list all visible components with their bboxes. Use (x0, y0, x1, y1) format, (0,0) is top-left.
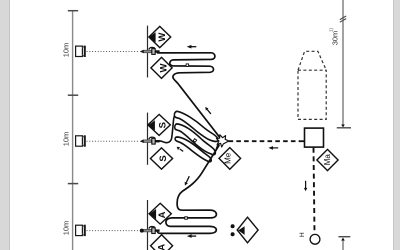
diamond S1 (148, 114, 170, 135)
small square marker on S loop 2 (193, 139, 196, 142)
svg-text:Me: Me (224, 152, 233, 164)
S exit strand to star (212, 143, 219, 156)
dashed line star to square (229, 140, 300, 142)
left dimension top bar (68, 10, 78, 12)
S loop 3 (175, 137, 211, 162)
square box (table) (305, 128, 324, 147)
small square marker on W strand 3 (186, 64, 189, 67)
boundary line segment W row (147, 26, 149, 78)
svg-text:S: S (158, 155, 169, 161)
solid stub into square (299, 140, 305, 142)
arrow on dashed line (pointing left) (268, 146, 278, 150)
svg-text:A: A (157, 244, 168, 250)
W serpentine track (158, 53, 220, 137)
svg-text:10m: 10m (62, 132, 71, 147)
direction arrow on diagonal to star (pointing up) (205, 107, 211, 114)
S loop 2 (175, 124, 216, 155)
dotted signal line 2 (87, 140, 140, 142)
dotted signal line 3 (87, 230, 140, 232)
direction arrow below A strand 4 (187, 234, 196, 238)
loudspeaker 2 (76, 135, 86, 146)
diamond A1 (149, 203, 171, 224)
diamond W2 (151, 57, 172, 78)
victim triangle at S1 (148, 120, 155, 130)
svg-text:W: W (157, 33, 168, 42)
right dimension line (30m) upper part (342, 0, 344, 126)
break symbol (340, 16, 346, 22)
marker device row 3 (140, 227, 160, 234)
svg-text:H: H (299, 232, 306, 237)
direction arrow on A diagonal (pointing down-left) (185, 176, 190, 185)
dashed vehicle outline (298, 51, 326, 119)
left gray page edge (0, 0, 10, 250)
loudspeaker 1 (76, 46, 86, 57)
handler circle (310, 234, 320, 244)
direction arrow above W strand 1 (187, 45, 197, 49)
legend dots (231, 224, 235, 228)
direction arrow on S serpentine (pointing upper-left) (177, 147, 184, 152)
right gray page edge (394, 0, 400, 250)
S loop 1 (174, 111, 218, 141)
marker device row 2 (140, 137, 160, 144)
marker device row 1 (140, 47, 160, 54)
diamond S2 (150, 148, 172, 169)
svg-text:1): 1) (329, 28, 334, 33)
bar under arrow (337, 127, 351, 129)
svg-text:10m: 10m (62, 221, 71, 236)
victim triangle at A1 (149, 209, 156, 219)
left dimension tick 1 (68, 94, 78, 96)
diamond A2 (cut by bottom edge) (151, 235, 173, 250)
diamond Me (219, 148, 241, 170)
victim triangle at W1 (149, 32, 156, 42)
svg-text:Ma: Ma (323, 154, 332, 166)
svg-text:S: S (157, 122, 168, 128)
diamond W1 (149, 26, 171, 47)
dotted signal line 1 (87, 51, 140, 53)
dashed line square down to handler (314, 148, 315, 234)
svg-text:10m: 10m (62, 43, 71, 58)
small square marker on A strand 2 (185, 217, 188, 220)
arrow up under lower bar (341, 238, 345, 241)
legend diamond (dog symbol) (237, 217, 258, 243)
boundary line segment A row (147, 200, 149, 250)
boundary line segment S row (147, 113, 149, 165)
central junction star (216, 135, 228, 147)
svg-text:A: A (157, 211, 168, 218)
right dimension line lower stub (342, 241, 344, 250)
arrow down at end of upper part (341, 125, 345, 128)
diamond Ma (317, 149, 338, 170)
svg-text:W: W (158, 63, 169, 72)
loudspeaker 3 (76, 225, 86, 236)
left dimension tick 2 (68, 183, 78, 185)
right dimension line lower bar (339, 236, 351, 238)
S serpentine track entry from device (158, 116, 174, 142)
arrow beside dashed line (pointing down) (304, 181, 307, 191)
left dimension line (vertical, 10m sections) (72, 11, 74, 250)
A serpentine track (158, 145, 219, 233)
